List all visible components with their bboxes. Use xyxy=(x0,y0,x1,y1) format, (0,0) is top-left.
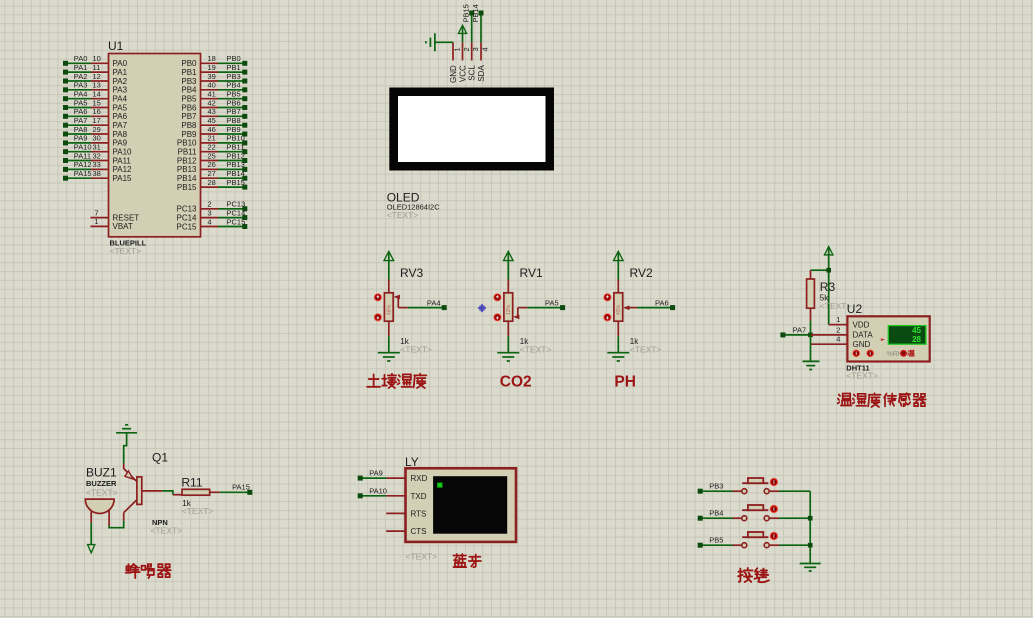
svg-text:PB15: PB15 xyxy=(227,178,245,187)
svg-text:PA4: PA4 xyxy=(74,90,88,99)
svg-text:10: 10 xyxy=(93,54,101,63)
svg-text:28: 28 xyxy=(912,335,921,344)
wire RV3 bottom + value xyxy=(389,321,432,354)
svg-text:PC15: PC15 xyxy=(227,217,246,226)
wire RV2 top xyxy=(617,280,619,294)
wire PA10 to TXD xyxy=(358,486,406,498)
wire R3 bottom xyxy=(810,308,812,335)
svg-text:PB4: PB4 xyxy=(709,509,723,518)
potentiometer RV1 body xyxy=(493,266,543,321)
svg-text:VCC: VCC xyxy=(458,65,467,82)
wire R3 top branch xyxy=(811,268,832,279)
svg-text:PB7: PB7 xyxy=(227,107,241,116)
svg-text:PA3: PA3 xyxy=(74,81,88,90)
svg-text:4: 4 xyxy=(208,217,212,226)
U1 pin PB1 (pin 19) xyxy=(181,63,247,77)
ground symbol (OLED GND) xyxy=(426,33,453,51)
svg-text:PB9: PB9 xyxy=(181,130,197,139)
U1 pin PA5 (pin 15) xyxy=(63,98,128,112)
svg-text:PB11: PB11 xyxy=(178,148,198,157)
U1 pin PB0 (pin 18) xyxy=(181,54,247,68)
U1 pin PA0 (pin 10) xyxy=(63,54,128,68)
wire RV1 bottom + value xyxy=(508,321,551,354)
svg-text:PB14: PB14 xyxy=(471,4,480,22)
wire RV2 wiper to PA6 xyxy=(628,298,675,310)
svg-text:PB1: PB1 xyxy=(181,68,197,77)
svg-text:PA8: PA8 xyxy=(113,130,128,139)
U1 pin PA15 (pin 38) xyxy=(63,169,132,183)
wire SDA to PB14 xyxy=(471,4,484,42)
svg-text:PB3: PB3 xyxy=(709,482,723,491)
transistor Q1 xyxy=(124,451,182,536)
svg-text:R11: R11 xyxy=(181,475,202,489)
svg-text:PB1: PB1 xyxy=(227,63,241,72)
U1 pin PB8 (pin 45) xyxy=(181,116,247,130)
U1 pin PC14 (pin 3) xyxy=(176,208,247,222)
ground symbol (RV3) xyxy=(378,353,400,361)
wiper arrow RV3 xyxy=(394,295,400,308)
U1 pin PC13 (pin 2) xyxy=(176,200,247,214)
svg-text:PA9: PA9 xyxy=(74,134,88,143)
svg-text:RESET: RESET xyxy=(113,213,140,222)
svg-text:PA5: PA5 xyxy=(113,103,128,112)
svg-text:PB15: PB15 xyxy=(462,4,471,22)
wire button bus xyxy=(808,491,813,563)
svg-text:PA10: PA10 xyxy=(369,486,387,495)
label PH xyxy=(614,374,636,391)
U1 pin PA7 (pin 17) xyxy=(63,116,128,130)
svg-text:PB15: PB15 xyxy=(177,183,197,192)
push button PB5 xyxy=(698,532,811,548)
svg-text:4: 4 xyxy=(836,335,840,344)
svg-text:28: 28 xyxy=(208,178,216,187)
U1 pin PB6 (pin 42) xyxy=(181,98,247,112)
wire Q1 base to R11 xyxy=(142,491,182,495)
svg-text:1: 1 xyxy=(94,217,98,226)
svg-text:PB8: PB8 xyxy=(181,121,197,130)
svg-text:1: 1 xyxy=(452,47,461,51)
svg-text:PB9: PB9 xyxy=(227,125,241,134)
svg-text:3: 3 xyxy=(471,47,480,51)
push button PB4 xyxy=(698,505,811,521)
label keys xyxy=(738,568,769,582)
svg-text:42: 42 xyxy=(208,98,216,107)
svg-text:4: 4 xyxy=(480,47,489,51)
svg-text:33: 33 xyxy=(93,160,101,169)
wire RV1 wiper to PA5 xyxy=(518,298,565,310)
label soil moisture xyxy=(367,374,426,388)
label CO2 xyxy=(500,374,532,391)
OLED pin 4 SDA stub xyxy=(477,42,490,81)
svg-text:BUZ1: BUZ1 xyxy=(86,466,117,480)
potentiometer RV3 body xyxy=(374,266,424,321)
svg-text:PB3: PB3 xyxy=(181,77,197,86)
svg-text:PA4: PA4 xyxy=(427,298,441,307)
OLED pin 3 SCL stub xyxy=(468,42,481,80)
svg-text:30: 30 xyxy=(93,134,101,143)
svg-text:PC13: PC13 xyxy=(227,200,246,209)
svg-text:PC14: PC14 xyxy=(227,208,246,217)
ground symbol (buttons) xyxy=(800,564,821,572)
svg-text:PB13: PB13 xyxy=(227,160,245,169)
svg-text:45: 45 xyxy=(208,116,216,125)
OLED display bezel xyxy=(389,88,554,171)
svg-text:PA2: PA2 xyxy=(74,72,88,81)
label bluetooth xyxy=(453,554,481,567)
svg-text:1: 1 xyxy=(836,315,840,324)
svg-text:PA15: PA15 xyxy=(232,483,250,492)
label temperature-humidity sensor xyxy=(838,393,926,407)
svg-text:PB5: PB5 xyxy=(227,90,241,99)
U1 pin PA10 (pin 31) xyxy=(63,143,132,157)
svg-text:PB7: PB7 xyxy=(181,112,197,121)
svg-text:PB10: PB10 xyxy=(177,139,197,148)
svg-text:26: 26 xyxy=(208,160,216,169)
svg-text:17: 17 xyxy=(93,116,101,125)
svg-text:GND: GND xyxy=(853,340,871,349)
svg-text:PA15: PA15 xyxy=(74,169,92,178)
svg-text:VBAT: VBAT xyxy=(113,222,133,231)
svg-text:<TEXT>: <TEXT> xyxy=(846,371,878,381)
svg-text:PB10: PB10 xyxy=(227,134,245,143)
svg-text:13: 13 xyxy=(93,81,101,90)
svg-text:PB4: PB4 xyxy=(181,86,197,95)
OLED pin 1 GND stub xyxy=(449,42,462,83)
potentiometer RV2 body xyxy=(603,266,653,321)
svg-text:<TEXT>: <TEXT> xyxy=(86,488,118,498)
U1 pin PB11 (pin 22) xyxy=(178,143,248,157)
wire R11 to PA15 xyxy=(210,483,253,495)
U1 pin PA4 (pin 14) xyxy=(63,90,128,104)
wire buzzer left leg xyxy=(90,511,92,523)
svg-text:2: 2 xyxy=(836,325,840,334)
svg-text:11: 11 xyxy=(93,63,101,72)
svg-text:40: 40 xyxy=(208,81,216,90)
module LY bluetooth body xyxy=(405,455,516,542)
svg-text:PA8: PA8 xyxy=(74,125,88,134)
U1 pin PA9 (pin 30) xyxy=(63,134,128,148)
svg-text:<TEXT>: <TEXT> xyxy=(520,345,552,355)
svg-text:RTS: RTS xyxy=(411,510,427,519)
power terminal (buzzer, down) xyxy=(88,523,95,553)
svg-text:3: 3 xyxy=(208,208,212,217)
svg-text:32: 32 xyxy=(93,151,101,160)
wire RV2 bottom + value xyxy=(618,321,661,354)
svg-text:PA3: PA3 xyxy=(113,86,128,95)
power terminal (RV1 top) xyxy=(504,251,514,279)
label buzzer xyxy=(126,564,171,578)
svg-text:PC14: PC14 xyxy=(176,213,197,222)
U1 pin PA8 (pin 29) xyxy=(63,125,128,139)
wire RV1 top xyxy=(507,280,509,294)
svg-text:14: 14 xyxy=(93,90,101,99)
U1 pin PA11 (pin 32) xyxy=(63,151,131,165)
svg-text:PA5: PA5 xyxy=(545,298,559,307)
svg-text:PH: PH xyxy=(614,374,636,391)
U1 pin RESET (pin 7) xyxy=(91,208,140,222)
svg-text:7: 7 xyxy=(94,208,98,217)
U1 pin PB3 (pin 39) xyxy=(181,72,247,86)
svg-text:PA10: PA10 xyxy=(113,148,133,157)
svg-text:SCL: SCL xyxy=(468,65,477,81)
svg-text:PA7: PA7 xyxy=(113,121,128,130)
svg-text:PA9: PA9 xyxy=(113,139,128,148)
resistor R11 xyxy=(181,475,213,516)
svg-text:43%: 43% xyxy=(616,304,622,315)
svg-text:CO2: CO2 xyxy=(500,374,532,391)
svg-text:22: 22 xyxy=(208,143,216,152)
wire buzzer right leg to Q1 emitter xyxy=(109,510,124,528)
svg-text:RV3: RV3 xyxy=(400,266,423,280)
svg-text:38: 38 xyxy=(93,169,101,178)
U1 pin PB13 (pin 26) xyxy=(177,160,247,174)
power terminal (DHT11) xyxy=(825,247,833,325)
U1 pin PB12 (pin 25) xyxy=(177,151,247,165)
svg-text:25: 25 xyxy=(208,151,216,160)
svg-text:GND: GND xyxy=(449,65,458,83)
svg-text:<TEXT>: <TEXT> xyxy=(400,345,432,355)
DHT11 labels xyxy=(846,363,878,380)
svg-text:<TEXT>: <TEXT> xyxy=(151,526,183,536)
U1 pin PA6 (pin 16) xyxy=(63,107,128,121)
buzzer BUZ1 xyxy=(85,466,117,514)
U1 pin PA12 (pin 33) xyxy=(63,160,132,174)
U1 pin PA1 (pin 11) xyxy=(63,63,128,77)
U1 pin PB5 (pin 41) xyxy=(181,90,247,104)
svg-text:PB6: PB6 xyxy=(181,103,197,112)
U1 pin PB14 (pin 27) xyxy=(177,169,247,183)
svg-text:PA15: PA15 xyxy=(113,174,133,183)
svg-text:LY: LY xyxy=(405,455,419,469)
svg-text:VDD: VDD xyxy=(853,320,870,329)
svg-text:PA1: PA1 xyxy=(113,68,128,77)
svg-text:RV2: RV2 xyxy=(630,266,653,280)
svg-text:PA2: PA2 xyxy=(113,77,128,86)
svg-text:PB8: PB8 xyxy=(227,116,241,125)
svg-text:PA0: PA0 xyxy=(74,54,88,63)
U1 pin PB4 (pin 40) xyxy=(181,81,247,95)
IC U1 BLUEPILL body xyxy=(108,39,201,256)
svg-text:41: 41 xyxy=(208,90,216,99)
U1 pin PA3 (pin 13) xyxy=(63,81,128,95)
wire PA9 to RXD xyxy=(358,469,406,481)
svg-text:PA1: PA1 xyxy=(74,63,88,72)
CTS stub xyxy=(386,530,405,532)
svg-text:18: 18 xyxy=(208,54,216,63)
svg-text:PB12: PB12 xyxy=(227,151,245,160)
svg-text:PA9: PA9 xyxy=(369,469,383,478)
svg-text:PA4: PA4 xyxy=(113,95,128,104)
svg-text:<TEXT>: <TEXT> xyxy=(182,506,214,516)
resistor R3 xyxy=(807,279,852,311)
power terminal (RV2 top) xyxy=(614,251,624,279)
origin marker xyxy=(478,304,486,312)
power terminal (RV3 top) xyxy=(384,251,394,279)
svg-text:PB3: PB3 xyxy=(227,72,241,81)
svg-text:U1: U1 xyxy=(108,39,124,53)
svg-text:<TEXT>: <TEXT> xyxy=(406,552,438,562)
svg-text:PA11: PA11 xyxy=(74,151,91,160)
svg-text:PB13: PB13 xyxy=(177,165,197,174)
svg-text:RXD: RXD xyxy=(411,474,428,483)
svg-text:PA10: PA10 xyxy=(74,143,92,152)
svg-text:SDA: SDA xyxy=(477,65,486,82)
ground symbol (RV1) xyxy=(497,353,519,361)
U1 pin PB7 (pin 43) xyxy=(181,107,247,121)
svg-text:21: 21 xyxy=(208,134,216,143)
svg-text:16: 16 xyxy=(93,107,101,116)
svg-text:PA6: PA6 xyxy=(74,107,88,116)
svg-text:PB4: PB4 xyxy=(227,81,241,90)
svg-text:PB0: PB0 xyxy=(227,54,241,63)
svg-text:PA11: PA11 xyxy=(113,156,132,165)
svg-text:PA12: PA12 xyxy=(113,165,133,174)
ground symbol (buzzer top, rotated) xyxy=(116,425,137,433)
svg-text:PB6: PB6 xyxy=(227,98,241,107)
U2 pin 2 DATA stub xyxy=(811,325,847,335)
U1 pin PB9 (pin 46) xyxy=(181,125,247,139)
wire PA7 to DATA xyxy=(780,325,812,337)
power terminal (OLED VCC) xyxy=(458,25,466,42)
svg-text:39: 39 xyxy=(208,72,216,81)
U2 pin 1 VDD stub xyxy=(829,315,848,325)
OLED labels xyxy=(387,191,441,221)
U1 pin PA2 (pin 12) xyxy=(63,72,128,86)
svg-text:U2: U2 xyxy=(847,302,863,316)
svg-text:PB5: PB5 xyxy=(709,536,723,545)
svg-text:<TEXT>: <TEXT> xyxy=(630,345,662,355)
LY labels xyxy=(406,552,438,562)
U1 pin PC15 (pin 4) xyxy=(176,217,247,231)
svg-text:CTS: CTS xyxy=(411,527,427,536)
svg-text:12%: 12% xyxy=(506,304,512,315)
U1 pin PB15 (pin 28) xyxy=(177,178,247,192)
svg-text:PA12: PA12 xyxy=(74,160,92,169)
svg-text:DATA: DATA xyxy=(853,331,874,340)
svg-text:19: 19 xyxy=(208,63,216,72)
svg-text:PA7: PA7 xyxy=(793,325,807,334)
svg-text:46%: 46% xyxy=(386,304,392,315)
wire DHT11 GND down xyxy=(810,335,812,361)
wire RV3 top xyxy=(388,280,390,294)
svg-text:31: 31 xyxy=(93,143,101,152)
wire Q1 collector to ground xyxy=(124,433,127,469)
svg-text:PB0: PB0 xyxy=(181,59,197,68)
wiper arrow RV2 xyxy=(623,306,629,311)
svg-text:PC13: PC13 xyxy=(176,205,197,214)
svg-text:27: 27 xyxy=(208,169,216,178)
svg-text:PC15: PC15 xyxy=(176,222,197,231)
svg-text:46: 46 xyxy=(208,125,216,134)
svg-text:45: 45 xyxy=(912,326,921,335)
svg-text:PA0: PA0 xyxy=(113,59,128,68)
svg-text:43: 43 xyxy=(208,107,216,116)
svg-text:<TEXT>: <TEXT> xyxy=(110,246,142,256)
svg-text:PB11: PB11 xyxy=(227,143,245,152)
push button PB3 xyxy=(698,478,811,494)
svg-text:15: 15 xyxy=(93,98,101,107)
svg-text:12: 12 xyxy=(93,72,101,81)
svg-text:PA5: PA5 xyxy=(74,98,88,107)
svg-text:TXD: TXD xyxy=(411,492,427,501)
svg-text:PA6: PA6 xyxy=(113,112,128,121)
wire SCL to PB15 xyxy=(462,4,475,42)
svg-text:2: 2 xyxy=(462,47,471,51)
svg-text:PB14: PB14 xyxy=(227,169,245,178)
ground symbol (RV2) xyxy=(607,353,629,361)
svg-text:29: 29 xyxy=(93,125,101,134)
ground symbol (DHT11) xyxy=(803,361,820,369)
svg-text:<TEXT>: <TEXT> xyxy=(387,210,419,220)
svg-text:Q1: Q1 xyxy=(152,451,168,465)
U1 pin VBAT (pin 1) xyxy=(91,217,133,231)
svg-text:RV1: RV1 xyxy=(520,266,543,280)
wire RV3 wiper to PA4 xyxy=(398,298,446,310)
svg-text:2: 2 xyxy=(208,200,212,209)
OLED pin 2 VCC stub xyxy=(458,42,471,82)
svg-text:PA7: PA7 xyxy=(74,116,88,125)
wiper arrow RV1 xyxy=(513,308,519,319)
RTS stub xyxy=(386,512,405,514)
svg-text:PB5: PB5 xyxy=(181,95,197,104)
svg-text:PA6: PA6 xyxy=(655,298,669,307)
svg-text:PB14: PB14 xyxy=(177,174,197,183)
svg-text:R3: R3 xyxy=(820,280,836,294)
U1 pin PB10 (pin 21) xyxy=(177,134,247,148)
svg-text:PB12: PB12 xyxy=(177,156,197,165)
U2 pin 4 GND stub xyxy=(811,335,847,345)
sensor U2 DHT11 body xyxy=(847,302,930,362)
